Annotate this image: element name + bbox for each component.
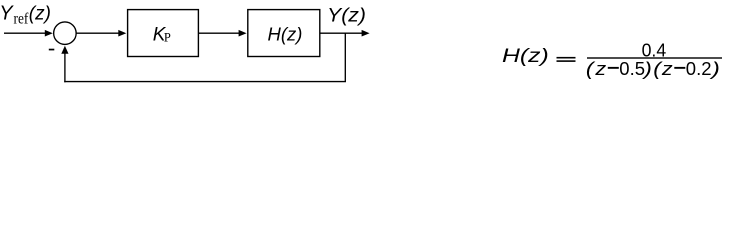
svg-text:(z0.5)(z0.2): (z0.5)(z0.2): [586, 58, 720, 79]
wire input: [4, 32, 46, 34]
arrowhead into KP block: [118, 30, 126, 37]
svg-text:H(z): H(z): [502, 46, 549, 67]
summing junction S1: [54, 22, 77, 45]
minus signs in denominator: [608, 67, 619, 69]
wire summing junction to KP: [77, 32, 120, 34]
node Yref input label: [0, 2, 51, 27]
svg-text:P: P: [164, 31, 171, 45]
svg-text:H(z): H(z): [268, 24, 303, 45]
svg-text:ref: ref: [14, 11, 29, 28]
block KP: [128, 10, 199, 57]
wire feedback up to summing junction: [64, 53, 66, 83]
wire output: [320, 32, 363, 34]
arrowhead into summing junction: [45, 30, 53, 37]
arrowhead output: [362, 30, 370, 37]
wire feedback down from output junction: [344, 33, 346, 81]
fraction bar: [587, 57, 722, 58]
label KP: [153, 25, 171, 46]
arrowhead into Hz block: [239, 30, 247, 37]
arrowhead into summing junction bottom: [61, 46, 68, 54]
svg-text:Y(z): Y(z): [327, 5, 366, 26]
svg-text:0.4: 0.4: [642, 39, 667, 60]
block Hz: [248, 10, 320, 57]
equals sign: [557, 57, 576, 62]
wire KP to Hz: [198, 32, 239, 34]
svg-text:(z): (z): [29, 4, 51, 25]
wire feedback bottom: [64, 81, 346, 83]
minus sign at feedback input: [49, 49, 55, 51]
svg-text:Y: Y: [0, 2, 14, 24]
